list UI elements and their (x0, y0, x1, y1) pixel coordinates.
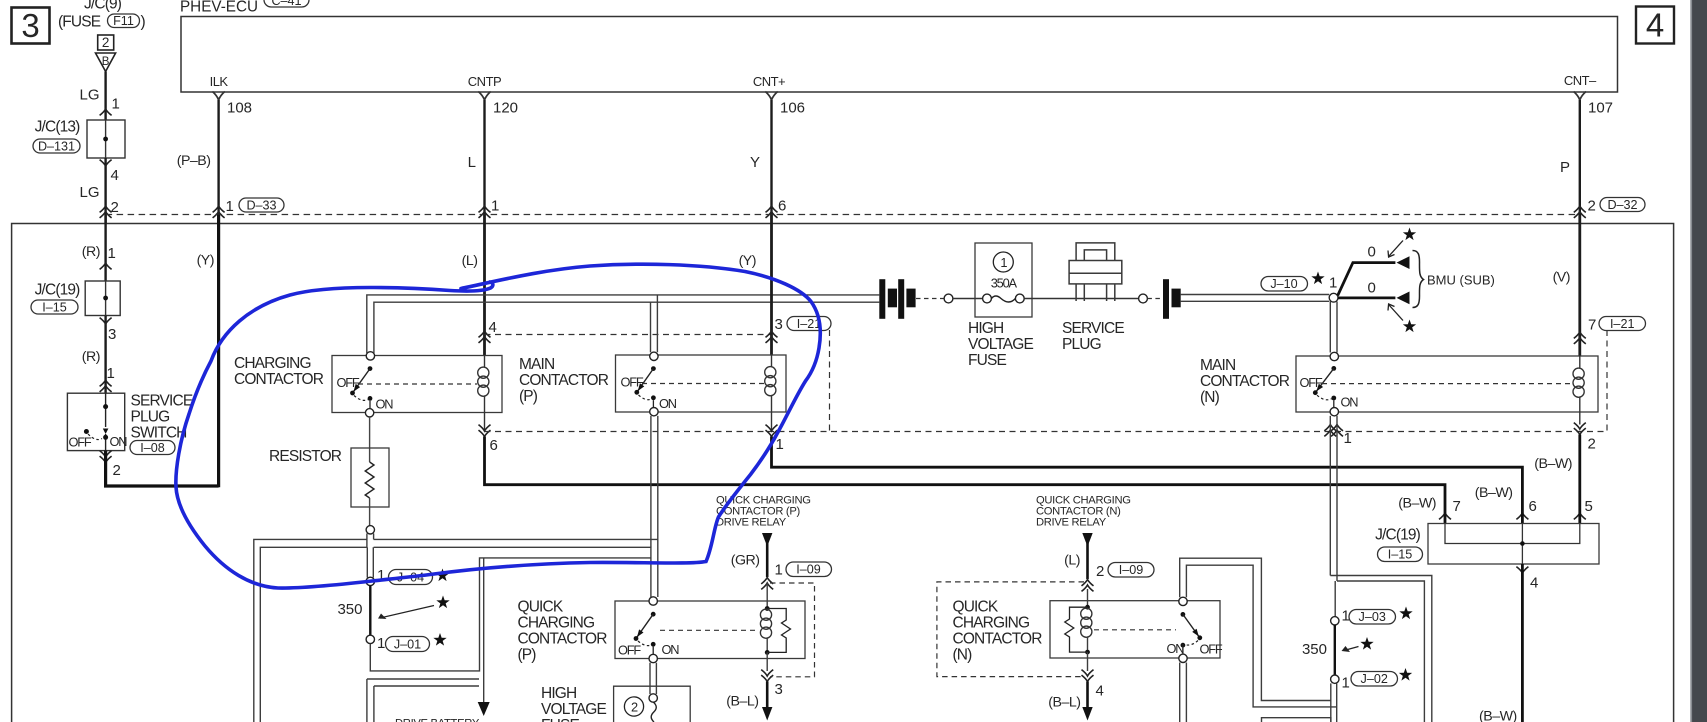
svg-text:(B–W): (B–W) (1398, 496, 1436, 512)
HV bus pair to J-10 node (1181, 295, 1330, 302)
svg-text:3: 3 (775, 681, 783, 698)
svg-text:FUSE: FUSE (968, 352, 1006, 369)
wire (Y) harness to connector I-21 pin 3 (739, 215, 831, 356)
high voltage fuse 1 (968, 243, 1139, 369)
svg-text:I–21: I–21 (1610, 317, 1635, 331)
svg-text:BMU (SUB): BMU (SUB) (1427, 273, 1495, 288)
wire (P-B) ILK to D-33 (177, 100, 284, 218)
svg-text:OFF: OFF (1300, 375, 1323, 390)
bus drop pair to main contactor (P) (651, 295, 658, 352)
bold wire B-W from pin 1 to J/C(19) pin 6 (772, 437, 1523, 513)
svg-text:1: 1 (226, 198, 234, 215)
HV connector bars left (879, 279, 915, 319)
svg-text:J/C(19): J/C(19) (35, 282, 81, 299)
quick charging contactor (P) box (615, 601, 805, 659)
svg-text:LG: LG (79, 87, 99, 104)
quick charging contactor (N) switch (1094, 597, 1223, 662)
svg-text:(B–L): (B–L) (1048, 695, 1080, 711)
svg-text:(B–W): (B–W) (1534, 456, 1572, 472)
svg-text:OFF: OFF (618, 643, 641, 658)
pair below quick charging contactor (N) switch (1180, 663, 1187, 722)
svg-text:CONTACTOR: CONTACTOR (1200, 373, 1290, 390)
pair below J-02 (1331, 683, 1337, 722)
blue annotation loop (176, 264, 820, 588)
svg-text:OFF: OFF (621, 375, 644, 390)
svg-text:HIGH: HIGH (968, 320, 1003, 337)
main contactor (P) box (519, 355, 786, 412)
svg-text:VOLTAGE: VOLTAGE (968, 336, 1033, 353)
pin ILK 108 (210, 74, 252, 117)
svg-text:106: 106 (780, 100, 805, 117)
fuse tap box 2 (98, 35, 114, 50)
svg-text:I–15: I–15 (42, 301, 67, 315)
PHEV-ECU box C-41 (180, 0, 1618, 92)
svg-text:1: 1 (1329, 275, 1337, 292)
svg-text:I–15: I–15 (1388, 548, 1413, 562)
svg-text:6: 6 (1529, 498, 1537, 515)
svg-text:DRIVE RELAY: DRIVE RELAY (1036, 517, 1107, 529)
svg-text:OFF: OFF (1200, 642, 1223, 657)
svg-text:J/C(13): J/C(13) (35, 119, 81, 136)
svg-text:(V): (V) (1553, 270, 1570, 286)
quick charging contactor (N) box (1050, 601, 1220, 658)
wire P CNT- down (1560, 100, 1645, 218)
dashed drop I-21 (P) (829, 330, 831, 432)
svg-text:SERVICE: SERVICE (131, 393, 193, 410)
svg-text:J/C(19): J/C(19) (1375, 527, 1421, 544)
svg-text:J–10: J–10 (1270, 277, 1297, 291)
svg-text:F11: F11 (113, 14, 134, 28)
frame number box 4 (1636, 7, 1674, 44)
svg-text:CONTACTOR: CONTACTOR (234, 371, 324, 388)
pair above quick charging contactor (N) switch over to J-02 column (1180, 558, 1337, 707)
connector J-04 (366, 567, 449, 586)
connector J-10 (1261, 272, 1337, 292)
svg-text:(N): (N) (1200, 389, 1220, 406)
svg-text:CONTACTOR: CONTACTOR (953, 631, 1043, 648)
quick charging contactor (P) drive relay label (716, 495, 811, 529)
svg-text:ON: ON (659, 396, 677, 411)
svg-text:3: 3 (21, 7, 39, 44)
svg-text:(GR): (GR) (731, 553, 760, 569)
service plug switch I-08 (67, 393, 192, 456)
bus pair main contactor (P) to quick charging contactor (P) (651, 416, 658, 547)
wire service plug switch pin 2 down and right (100, 451, 219, 486)
svg-text:Y: Y (750, 154, 760, 171)
bold wire (B-W) J/C(19) pin 6 entry (1475, 485, 1537, 524)
svg-text:(R): (R) (82, 349, 100, 365)
svg-text:FUSE: FUSE (541, 717, 579, 722)
pair main contactor (N) down (1330, 416, 1337, 581)
pair J-10 node down to main contactor (N) (1330, 302, 1337, 353)
svg-text:C–41: C–41 (271, 0, 301, 8)
quick charging contactor (N) drive relay label (1036, 495, 1131, 529)
pin CNTP 120 (468, 74, 518, 117)
resistor output node (366, 526, 374, 534)
svg-text:I–09: I–09 (796, 563, 821, 577)
svg-text:3: 3 (108, 326, 116, 343)
main contactor (N) switch (1300, 352, 1573, 416)
svg-text:350: 350 (1302, 641, 1327, 658)
harness dashed line (106, 214, 1580, 216)
svg-text:4: 4 (489, 319, 497, 336)
BMU (SUB) arrows (1338, 228, 1495, 333)
svg-text:4: 4 (1646, 7, 1664, 44)
svg-text:ON: ON (110, 434, 128, 449)
connector triangle B (96, 53, 116, 72)
drive battery feed arrow (478, 558, 490, 716)
HV connector bars right (1163, 279, 1181, 319)
svg-text:(L): (L) (462, 253, 478, 269)
connector J-01 (366, 633, 447, 652)
svg-text:2: 2 (1588, 436, 1596, 453)
svg-text:7: 7 (1588, 317, 1596, 334)
wire LG from fuse to J/C(13) (104, 72, 106, 121)
svg-text:1: 1 (491, 198, 499, 215)
junction J/C(13) D-131 (33, 119, 125, 159)
dashed connector I-09 (P) outline (770, 583, 815, 677)
drive battery box (367, 679, 480, 722)
main contactor (P) switch (621, 352, 765, 416)
svg-text:(P): (P) (519, 388, 538, 405)
nested box outlines right of J-02 column (1330, 576, 1432, 722)
svg-text:PLUG: PLUG (1062, 336, 1101, 353)
svg-text:LG: LG (79, 184, 99, 201)
svg-text:(N): (N) (953, 647, 973, 664)
bold wire (B-W) J/C(19) pin 5 entry (1574, 498, 1593, 524)
junction J/C(19) I-15 box bottom (1375, 524, 1599, 565)
svg-text:CNT–: CNT– (1564, 73, 1597, 88)
svg-text:B: B (102, 56, 110, 68)
svg-text:RESISTOR: RESISTOR (269, 448, 342, 465)
wire (R) harness to J/C(19) (82, 215, 116, 282)
svg-text:DRIVE BATTERY: DRIVE BATTERY (395, 718, 480, 722)
svg-text:VOLTAGE: VOLTAGE (541, 701, 606, 718)
drive relay (N) feed arrow and wire (L) (1064, 533, 1154, 591)
drive relay (P) feed arrow and wire (GR) (731, 533, 832, 589)
quick charging contactor (N) relay coil with resistor (1065, 589, 1092, 654)
resistor (269, 417, 389, 526)
svg-text:1: 1 (112, 96, 120, 113)
dashed drop I-21 (N) (1606, 330, 1608, 432)
svg-text:1: 1 (107, 365, 115, 382)
svg-text:1: 1 (377, 635, 385, 652)
svg-text:120: 120 (493, 100, 518, 117)
wire to J-04 (367, 547, 373, 577)
pin CNT- 107 (1564, 73, 1613, 117)
svg-text:6: 6 (778, 198, 786, 215)
svg-text:CNT+: CNT+ (753, 74, 785, 89)
svg-text:2: 2 (102, 35, 110, 50)
svg-text:QUICK: QUICK (953, 599, 999, 616)
crossing 1 at dashed line pair (1324, 425, 1352, 448)
svg-text:L: L (468, 154, 476, 171)
wire down to J-03 (1334, 581, 1336, 617)
pin CNT+ 106 (753, 74, 805, 117)
svg-text:I–09: I–09 (1119, 563, 1144, 577)
quick charging contactor (N) label (953, 599, 1043, 664)
svg-text:4: 4 (1096, 683, 1104, 700)
svg-text:J/C(9): J/C(9) (84, 0, 122, 13)
svg-text:): ) (141, 14, 146, 31)
svg-text:2: 2 (1096, 563, 1104, 580)
svg-text:6: 6 (490, 437, 498, 454)
dashed connector line I-21 pins 4-3 (485, 334, 772, 336)
wire J-01 to quick charging drop (370, 558, 651, 671)
connector J-03 (1331, 607, 1413, 626)
svg-text:ON: ON (662, 642, 680, 657)
wire (Y) bold up to D-33 (197, 215, 219, 488)
wire (R) J/C(19) to service plug switch (82, 316, 117, 394)
fuse terminal circle left (944, 294, 953, 303)
dashed connector line below contactors (485, 431, 1608, 433)
main contactor (N) box (1200, 356, 1598, 412)
svg-text:4: 4 (1530, 575, 1538, 592)
bold wire B-W from pin 6 to J/C(19) pin 7 (485, 437, 1446, 513)
svg-text:(R): (R) (82, 244, 100, 260)
svg-text:I–08: I–08 (140, 441, 165, 455)
svg-text:3: 3 (775, 316, 783, 333)
shielded wire 350 (337, 586, 449, 636)
svg-text:CHARGING: CHARGING (953, 615, 1030, 632)
wire 3 (B-L) below quick charging contactor (P) (726, 652, 783, 720)
svg-text:D–131: D–131 (38, 140, 75, 154)
svg-text:OFF: OFF (69, 435, 92, 450)
small box bottom center-right (1262, 718, 1331, 722)
wire 2 (B-W) below main contactor (N) (1534, 412, 1596, 512)
svg-text:D–32: D–32 (1607, 198, 1637, 212)
svg-text:350: 350 (337, 601, 362, 618)
svg-text:2: 2 (1588, 198, 1596, 215)
svg-text:CONTACTOR: CONTACTOR (518, 631, 608, 648)
svg-text:108: 108 (227, 100, 252, 117)
svg-text:SERVICE: SERVICE (1062, 320, 1124, 337)
dashed connector I-09 (N) outline (937, 582, 1084, 677)
shielded wire 350 right (1302, 625, 1374, 675)
wire (V) CNT- to I-21 pin 7 (1553, 215, 1646, 356)
bus drop pair into resistor node (367, 534, 374, 548)
svg-text:350A: 350A (991, 276, 1018, 291)
svg-text:(B–W): (B–W) (1479, 709, 1517, 722)
svg-text:J–02: J–02 (1361, 672, 1388, 686)
frame number box 3 (12, 8, 50, 44)
svg-text:QUICK: QUICK (518, 599, 564, 616)
svg-text:ILK: ILK (210, 74, 229, 89)
svg-text:(B–W): (B–W) (1475, 485, 1513, 501)
svg-text:(P–B): (P–B) (177, 153, 211, 169)
charging contactor box (234, 355, 502, 413)
battery unit outer box (12, 224, 1674, 722)
svg-text:J–03: J–03 (1359, 610, 1386, 624)
svg-text:PLUG: PLUG (131, 409, 170, 426)
svg-text:4: 4 (111, 167, 119, 184)
svg-text:DRIVE RELAY: DRIVE RELAY (716, 517, 787, 529)
fuse terminal circle right (1139, 294, 1160, 303)
svg-text:CNTP: CNTP (468, 74, 501, 89)
svg-text:1: 1 (776, 436, 784, 453)
svg-text:107: 107 (1588, 100, 1613, 117)
svg-text:(B–L): (B–L) (726, 694, 758, 710)
wire 4 (B-L) below quick charging contactor (N) (1048, 652, 1104, 720)
svg-text:CHARGING: CHARGING (518, 615, 595, 632)
wire pair contactor (P) to high voltage fuse 2 (649, 663, 657, 722)
bold wire (B-W) J/C(19) pin 7 entry (1398, 496, 1461, 524)
wire LG from J/C(13) to harness crossing (104, 158, 106, 223)
svg-text:OFF: OFF (337, 375, 360, 390)
quick charging contactor (P) switch (618, 597, 758, 663)
HV bus pair branch left and down (254, 539, 658, 722)
svg-text:ON: ON (1341, 395, 1359, 410)
svg-text:HIGH: HIGH (541, 685, 576, 702)
svg-text:MAIN: MAIN (1200, 357, 1235, 374)
svg-text:D–33: D–33 (246, 199, 276, 213)
charging contactor switch (337, 352, 478, 417)
svg-text:1: 1 (775, 562, 783, 579)
svg-text:7: 7 (1453, 498, 1461, 515)
node BMU branch (1329, 293, 1338, 302)
high voltage fuse 2 box (541, 685, 690, 722)
svg-text:1: 1 (108, 245, 116, 262)
svg-text:(Y): (Y) (197, 253, 214, 269)
svg-text:MAIN: MAIN (519, 356, 554, 373)
svg-text:PHEV-ECU: PHEV-ECU (180, 0, 258, 16)
svg-text:2: 2 (113, 462, 121, 479)
svg-text:SWITCH: SWITCH (131, 425, 187, 442)
quick charging contactor (P) label (518, 599, 608, 664)
junction J/C(19) I-15 (31, 281, 120, 316)
svg-text:0: 0 (1368, 244, 1376, 261)
quick charging contactor (P) relay coil with resistor (760, 583, 790, 655)
svg-text:CHARGING: CHARGING (234, 355, 311, 372)
wire 4 (B-W) below J/C(19) (1479, 564, 1538, 722)
main contactor (N) coil on CNT- wire (1573, 356, 1584, 413)
label J/C(9) (FUSE F11) (58, 0, 146, 31)
svg-text:P: P (1560, 159, 1570, 176)
service plug (1062, 243, 1124, 353)
wire Y CNT+ down (750, 100, 786, 218)
main contactor (P) coil on CNT+ wire (765, 355, 776, 412)
wire (L) harness to connector I-21 pin 4 (462, 215, 497, 356)
wire 6 below charging contactor (479, 413, 498, 455)
svg-text:ON: ON (376, 397, 394, 412)
wire L CNTP down (468, 100, 500, 218)
connector J-02 (1331, 668, 1413, 692)
svg-text:5: 5 (1585, 498, 1593, 515)
svg-text:(Y): (Y) (739, 253, 756, 269)
HV bus pair from charging contactor top (367, 295, 880, 353)
svg-text:1: 1 (1344, 430, 1352, 447)
dashed link to fuse terminal (916, 298, 944, 300)
svg-text:1: 1 (1342, 675, 1350, 692)
wire 1 below main contactor (P) (766, 412, 784, 453)
svg-text:(L): (L) (1064, 553, 1080, 569)
right dark sidebar (1691, 0, 1707, 722)
svg-text:(P): (P) (518, 647, 537, 664)
svg-text:2: 2 (111, 199, 119, 216)
svg-text:J–01: J–01 (394, 638, 421, 652)
svg-text:(FUSE: (FUSE (58, 14, 101, 31)
svg-text:0: 0 (1368, 280, 1376, 297)
charging contactor coil on CNTP wire (478, 356, 489, 413)
svg-text:CONTACTOR: CONTACTOR (519, 372, 609, 389)
